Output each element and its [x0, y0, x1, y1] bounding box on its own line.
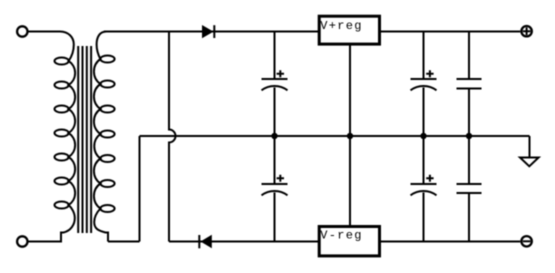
- svg-text:V+reg: V+reg: [320, 19, 363, 33]
- svg-text:V-reg: V-reg: [320, 228, 363, 242]
